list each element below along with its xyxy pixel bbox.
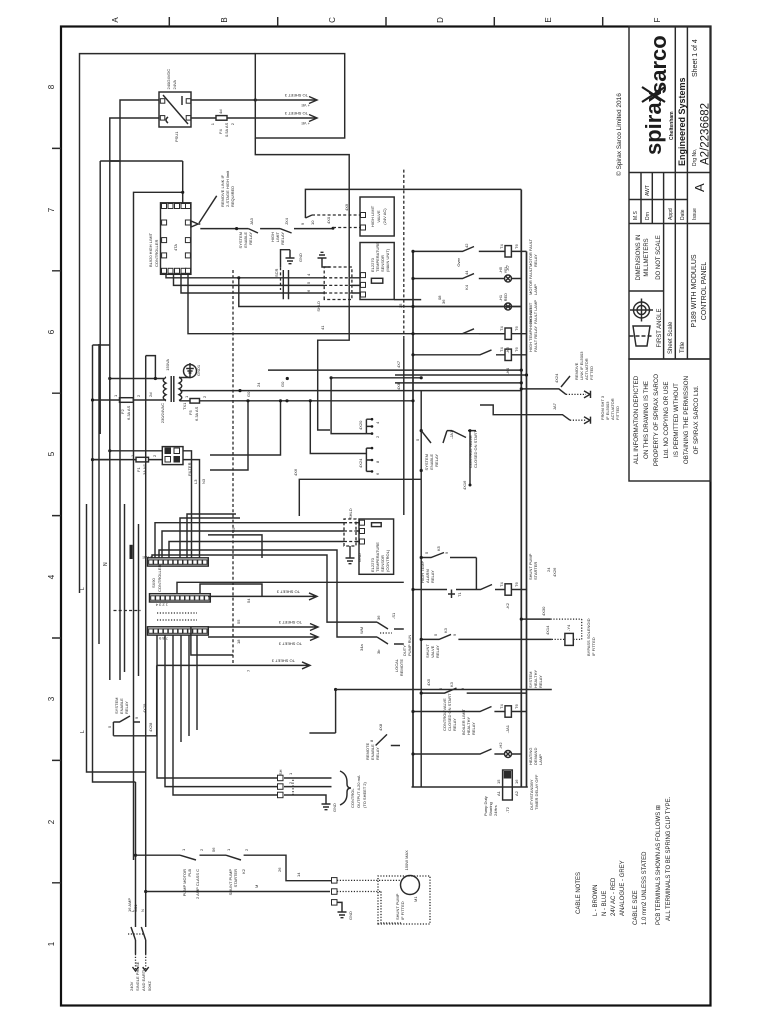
zone letters A-F right — [111, 17, 662, 23]
svg-text:4X28: 4X28 — [148, 722, 153, 732]
svg-text:4X9: 4X9 — [344, 203, 349, 211]
svg-text:36: 36 — [376, 615, 381, 620]
svg-text:HIGH LIMIT: HIGH LIMIT — [370, 205, 375, 227]
svg-text:STARTER: STARTER — [233, 869, 238, 887]
svg-text:OBTAINING THE PERMISSION: OBTAINING THE PERMISSION — [683, 376, 690, 464]
system enable relay contact (mid) — [415, 429, 557, 577]
sensor control wires — [215, 523, 360, 542]
svg-text:(CONTROL): (CONTROL) — [385, 549, 390, 572]
svg-text:IF FITTED: IF FITTED — [400, 901, 405, 920]
svg-text:56: 56 — [211, 847, 216, 852]
svg-text:-K2: -K2 — [505, 602, 510, 609]
svg-text:PUMP RUN: PUMP RUN — [407, 635, 412, 656]
svg-text:CONTROLLER: CONTROLLER — [157, 565, 162, 592]
svg-text:OUTPUT 4-20 mA: OUTPUT 4-20 mA — [356, 775, 361, 808]
svg-text:C: C — [328, 17, 337, 23]
svg-text:OF SPIRAX SARCO Ltd.: OF SPIRAX SARCO Ltd. — [693, 385, 700, 454]
svg-text:4X24: 4X24 — [358, 458, 363, 468]
svg-text:RELAY: RELAY — [124, 701, 129, 714]
svg-text:CABLE NOTES: CABLE NOTES — [576, 872, 582, 914]
remote enable relay — [309, 688, 400, 760]
rung high temp alarm — [420, 545, 477, 589]
svg-text:TO SHEET 3: TO SHEET 3 — [271, 658, 295, 663]
rung k6 coil — [411, 307, 538, 353]
svg-text:REQUIRED: REQUIRED — [230, 186, 235, 207]
wire bus y99 — [98, 344, 100, 644]
TX primary feed elbow — [146, 356, 156, 379]
svg-text:35: 35 — [398, 303, 403, 308]
svg-text:L3: L3 — [193, 479, 198, 484]
earth GND1 — [180, 363, 197, 378]
projection symbol circle — [630, 299, 653, 322]
svg-text:2: 2 — [47, 819, 56, 824]
svg-text:TO SHEET 3: TO SHEET 3 — [284, 93, 308, 98]
svg-text:CONTROLLER: CONTROLLER — [154, 240, 159, 267]
projection symbol cone — [630, 326, 654, 346]
svg-text:ANALOGUE - GREY: ANALOGUE - GREY — [620, 860, 626, 916]
svg-text:T6: T6 — [514, 244, 519, 249]
svg-text:GND: GND — [357, 553, 362, 562]
svg-text:1.0 mm2 UNLESS STATED: 1.0 mm2 UNLESS STATED — [642, 851, 648, 925]
title block outer box — [629, 27, 711, 360]
svg-text:18: 18 — [236, 639, 241, 644]
rung k4 coil — [411, 347, 526, 375]
svg-text:B: B — [220, 17, 229, 22]
dashed wires to valve — [312, 215, 360, 228]
rail aux 2 (B2 edge) — [420, 391, 422, 787]
svg-text:Cheltenham: Cheltenham — [669, 111, 675, 140]
zone numbers 1-8 top — [47, 84, 56, 946]
wire pump N — [146, 891, 330, 893]
svg-text:IS PERMITTED WITHOUT: IS PERMITTED WITHOUT — [673, 383, 680, 457]
terminal squares pump — [332, 878, 338, 884]
svg-text:-T2: -T2 — [505, 806, 510, 813]
svg-text:L N E: L N E — [142, 555, 152, 560]
svg-text:(TO SHEET 2): (TO SHEET 2) — [362, 781, 367, 808]
system enable relay (bottom left of controller) — [107, 611, 157, 736]
wire N jog — [93, 344, 110, 346]
svg-text:CONTROL: CONTROL — [350, 788, 355, 808]
strip C outputs — [157, 635, 278, 795]
earth hl shield — [286, 250, 295, 264]
svg-text:SINGLE PHASE: SINGLE PHASE — [135, 961, 140, 991]
svg-text:T4: T4 — [499, 347, 504, 352]
spirax sarco logo — [641, 35, 687, 166]
svg-text:2d: 2d — [148, 393, 153, 397]
wire bus y110 extend — [109, 161, 111, 680]
svg-text:150VA: 150VA — [165, 359, 170, 371]
dashed boundary upper — [403, 168, 405, 339]
svg-text:4X14: 4X14 — [545, 625, 550, 635]
fuse F2 — [93, 399, 167, 401]
wire BL920 feed — [182, 161, 184, 203]
wire TX primary drop — [110, 378, 165, 380]
earth control output — [320, 795, 331, 810]
svg-text:FAULT RELAY: FAULT RELAY — [533, 326, 538, 352]
wire pump L rung — [136, 854, 181, 856]
svg-text:T4: T4 — [499, 582, 504, 587]
svg-text:7 8 9: 7 8 9 — [158, 636, 168, 641]
svg-text:FIRST ANGLE: FIRST ANGLE — [657, 309, 663, 348]
transformer TX1 windings — [163, 376, 182, 402]
wire 4X5 long — [336, 689, 552, 691]
svg-text:Issue: Issue — [692, 208, 698, 220]
duty pump run text — [402, 635, 412, 656]
svg-text:08: 08 — [437, 295, 442, 300]
svg-text:4X6: 4X6 — [293, 468, 298, 476]
local/remote selector — [359, 612, 404, 676]
elbows strip A to sensor control — [155, 523, 215, 558]
wire rail mid — [134, 192, 183, 860]
svg-text:6.3A AS: 6.3A AS — [126, 405, 131, 420]
svg-text:4X16: 4X16 — [462, 480, 467, 490]
svg-text:K3: K3 — [449, 681, 454, 687]
svg-text:CABLE SIZE: CABLE SIZE — [633, 890, 639, 925]
svg-text:PROPERTY OF SPIRAX SARCO: PROPERTY OF SPIRAX SARCO — [653, 374, 660, 466]
svg-text:TO SHEET 3: TO SHEET 3 — [276, 589, 300, 594]
svg-text:A: A — [692, 183, 707, 192]
rung red lamp H1 — [411, 293, 538, 324]
arrow to sheet 3 (wire B) — [255, 115, 317, 122]
svg-text:CLOSED ON START: CLOSED ON START — [473, 430, 478, 468]
svg-text:10: 10 — [310, 220, 315, 225]
svg-text:RELAY: RELAY — [248, 232, 253, 245]
svg-text:240/24VDC: 240/24VDC — [166, 69, 171, 90]
svg-text:MILLMETERS: MILLMETERS — [644, 238, 650, 276]
rung motor fault relay — [411, 238, 538, 271]
svg-text:Over: Over — [456, 257, 461, 266]
svg-text:7: 7 — [47, 207, 56, 212]
svg-text:STARTER: STARTER — [533, 562, 538, 580]
shield dashed box main — [324, 267, 352, 300]
svg-text:Drn: Drn — [645, 212, 651, 220]
svg-text:GND: GND — [298, 253, 303, 262]
svg-text:4X5: 4X5 — [426, 678, 431, 686]
wire N bus — [93, 345, 136, 782]
wire to B2 rail — [331, 377, 421, 379]
svg-text:REMOTE: REMOTE — [399, 659, 404, 676]
zone ticks right edge — [169, 17, 602, 27]
dashed panel boundary — [232, 270, 234, 666]
svg-text:50HZ: 50HZ — [147, 981, 152, 991]
wire filter L — [110, 450, 163, 452]
brace control output — [340, 771, 351, 805]
svg-text:Sheet Scale: Sheet Scale — [668, 321, 674, 354]
svg-text:YEL: YEL — [503, 265, 508, 273]
svg-text:24: 24 — [256, 382, 261, 387]
svg-text:RELAY: RELAY — [430, 570, 435, 583]
svg-text:M: M — [254, 885, 259, 888]
wire supply N — [145, 772, 147, 927]
svg-text:PSU1: PSU1 — [174, 131, 179, 142]
wire 24V S2 — [268, 400, 413, 402]
svg-text:RELAY: RELAY — [452, 718, 457, 731]
svg-text:(24V AC): (24V AC) — [382, 208, 387, 225]
svg-text:Title: Title — [680, 341, 686, 353]
wire PSU +VE to sheet3 — [191, 99, 255, 101]
svg-text:0.5A AS: 0.5A AS — [224, 122, 229, 137]
strip B drop to ladder — [177, 582, 404, 593]
svg-text:4d: 4d — [218, 110, 223, 114]
contact high limit relay — [280, 228, 333, 234]
svg-text:6: 6 — [47, 329, 56, 334]
terminal strip C — [148, 627, 209, 635]
svg-text:L: L — [80, 587, 86, 590]
svg-text:F5: F5 — [188, 410, 193, 415]
svg-text:FITTED: FITTED — [615, 406, 620, 420]
svg-text:4X8: 4X8 — [378, 723, 383, 731]
svg-text:+ VE: + VE — [301, 121, 310, 126]
svg-text:E: E — [544, 17, 553, 22]
svg-text:2 AMP CLASS C: 2 AMP CLASS C — [195, 869, 200, 899]
svg-text:SHLD: SHLD — [348, 508, 353, 519]
wire trunk red lamp — [239, 278, 522, 307]
earth sensor control — [346, 546, 355, 564]
fuse F5 on 24V secondary — [180, 400, 268, 402]
svg-text:16: 16 — [514, 779, 519, 784]
fuse F1 — [93, 459, 163, 461]
from sheet 3 link — [480, 395, 620, 424]
svg-text:T6: T6 — [514, 704, 519, 709]
svg-text:N: N — [103, 562, 109, 566]
title block section dividers — [629, 173, 711, 292]
wire S2 branch B — [210, 401, 281, 455]
svg-text:A2: A2 — [514, 790, 519, 796]
wire bus y120 extend — [119, 161, 121, 680]
cable clamp — [283, 270, 288, 299]
svg-text:26: 26 — [277, 867, 282, 872]
svg-text:Drg No,: Drg No, — [692, 149, 698, 166]
svg-text:FITTED: FITTED — [589, 366, 594, 380]
svg-text:4X26: 4X26 — [552, 567, 557, 577]
rung heating demand lamp — [411, 742, 543, 765]
svg-text:T6: T6 — [514, 347, 519, 352]
wire 4X6 — [299, 479, 421, 516]
rail bottom 1 — [520, 190, 522, 788]
wire L long bus — [87, 504, 146, 772]
spare elbows strip A — [180, 514, 240, 558]
wire bus y124.5 — [124, 504, 126, 672]
svg-text:SCR: SCR — [274, 268, 279, 277]
timer duty/standby — [483, 770, 539, 816]
rung boiler limit healthy — [411, 670, 543, 735]
panel top wire — [80, 54, 256, 593]
svg-text:-S1: -S1 — [391, 612, 396, 619]
svg-text:T1: T1 — [457, 592, 462, 597]
link remove EL5003 — [520, 351, 594, 398]
svg-text:BL920 HIGH LIMIT: BL920 HIGH LIMIT — [148, 232, 153, 267]
strip C elbow down — [191, 627, 233, 655]
svg-text:24: 24 — [546, 567, 551, 572]
svg-text:Sheet 1 of 4: Sheet 1 of 4 — [692, 39, 699, 77]
svg-text:CONTROL PANEL: CONTROL PANEL — [701, 262, 708, 320]
wire rail y145.7 extend — [145, 356, 147, 772]
svg-text:PLB: PLB — [187, 869, 192, 877]
svg-text:A2/2236682: A2/2236682 — [700, 103, 712, 165]
svg-text:M.S: M.S — [633, 210, 639, 220]
zone ticks top edge — [52, 148, 61, 882]
svg-text:L: L — [80, 730, 86, 733]
svg-text:PCB TERMINALS SHOWN AS FOLLOWS: PCB TERMINALS SHOWN AS FOLLOWS ⊞ — [656, 805, 662, 925]
earth sensor main — [318, 252, 331, 267]
svg-text:4X8: 4X8 — [396, 382, 401, 390]
arrow to sheet 3 (wire A) — [255, 97, 317, 104]
svg-text:G0: G0 — [246, 391, 251, 397]
svg-text:K2: K2 — [241, 868, 246, 874]
legal text box — [629, 359, 711, 481]
wire trunk k6 — [188, 274, 505, 333]
svg-text:1: 1 — [47, 941, 56, 946]
wire bus y138.5 — [138, 524, 140, 676]
svg-text:-JA1: -JA1 — [449, 430, 454, 439]
svg-text:GND: GND — [332, 803, 337, 812]
svg-text:DO NOT SCALE: DO NOT SCALE — [656, 235, 662, 280]
svg-text:+ VE: + VE — [301, 103, 310, 108]
sensor ctrl drop — [394, 299, 421, 301]
sensor main wires — [166, 273, 360, 293]
svg-text:TO SHEET 3: TO SHEET 3 — [278, 642, 302, 647]
svg-text:4X20: 4X20 — [358, 420, 363, 430]
shunt pump dashed enclosure — [378, 876, 430, 924]
svg-text:GND1: GND1 — [196, 364, 201, 376]
rung yellow lamp H5 — [411, 265, 538, 295]
svg-text:RELAY: RELAY — [538, 675, 543, 688]
svg-text:(MAIN UNIT): (MAIN UNIT) — [385, 248, 390, 272]
svg-text:54: 54 — [246, 598, 251, 603]
wire pair 4X7 — [268, 370, 527, 383]
svg-text:VALVE: VALVE — [376, 210, 381, 223]
svg-text:T4: T4 — [499, 326, 504, 331]
wire 24V S1 — [180, 390, 521, 392]
svg-text:GND: GND — [348, 911, 353, 920]
svg-text:G0: G0 — [280, 381, 285, 387]
svg-text:RELAY: RELAY — [434, 454, 439, 467]
supply entry dashed — [136, 954, 146, 970]
bypass solenoid branch — [480, 606, 596, 656]
svg-text:K5: K5 — [436, 545, 441, 551]
svg-text:N - BLUE: N - BLUE — [602, 891, 608, 916]
svg-text:3b: 3b — [376, 649, 381, 654]
earth pump — [337, 902, 347, 917]
svg-text:-Y4: -Y4 — [566, 624, 571, 631]
wire L rail — [110, 160, 120, 162]
svg-text:150W MAX: 150W MAX — [404, 850, 409, 871]
wire motor dotted — [337, 879, 401, 881]
fuse F4 — [191, 110, 255, 137]
svg-text:N: N — [140, 909, 145, 912]
svg-text:sarco: sarco — [646, 35, 671, 94]
leader remove link — [199, 196, 217, 223]
svg-text:A1: A1 — [496, 790, 501, 796]
wire filter out — [183, 460, 200, 558]
svg-text:F: F — [653, 17, 662, 22]
svg-text:41: 41 — [320, 325, 325, 330]
svg-text:TX1: TX1 — [182, 402, 187, 410]
svg-text:230/24VAC: 230/24VAC — [160, 403, 165, 423]
svg-text:4X0: 4X0 — [326, 216, 331, 224]
dashed link control output — [292, 778, 294, 795]
svg-text:JX4: JX4 — [284, 217, 289, 225]
dotted x segments — [157, 613, 197, 620]
svg-text:M1: M1 — [413, 896, 418, 902]
svg-text:P189 WITH MODULUS: P189 WITH MODULUS — [691, 254, 698, 327]
svg-text:Ltd. NO COPYING OR USE: Ltd. NO COPYING OR USE — [663, 381, 670, 458]
BL920 right terminal strip — [162, 204, 191, 209]
contact shunt pump starter K2 — [226, 855, 332, 881]
wire ladder top feed — [305, 189, 521, 218]
pcb comb 1 — [366, 419, 372, 433]
comb feed 1 — [331, 378, 366, 434]
svg-text:RELAY: RELAY — [533, 254, 538, 267]
rung shunt valve relay — [420, 627, 480, 658]
contact system enable (hl chain) — [248, 229, 280, 233]
svg-text:© Spirax Sarco Limited 2016: © Spirax Sarco Limited 2016 — [615, 93, 623, 176]
svg-text:Appd: Appd — [668, 208, 674, 220]
svg-text:8: 8 — [47, 84, 56, 89]
rail mid aux — [403, 339, 405, 515]
svg-text:42: 42 — [464, 243, 469, 248]
svg-text:4X29: 4X29 — [142, 703, 147, 713]
svg-text:RELAY: RELAY — [375, 747, 380, 760]
svg-text:34a: 34a — [359, 644, 364, 651]
svg-text:AND EARTH: AND EARTH — [141, 968, 146, 991]
svg-text:D: D — [436, 17, 445, 23]
comb feed 2 — [310, 401, 366, 454]
svg-text:4: 4 — [47, 574, 56, 579]
isolator SS1 — [128, 927, 146, 954]
svg-text:F2: F2 — [120, 409, 125, 414]
svg-text:5: 5 — [47, 451, 56, 456]
svg-text:K4: K4 — [464, 284, 469, 290]
contact pump motor plb — [180, 855, 226, 860]
wire 25 — [208, 535, 262, 558]
svg-text:T6: T6 — [514, 582, 519, 587]
terminal strip A — [148, 558, 209, 566]
svg-text:3: 3 — [47, 696, 56, 701]
svg-text:N3: N3 — [201, 478, 206, 484]
shield dashed box control — [344, 519, 356, 546]
svg-text:L - BROWN: L - BROWN — [593, 885, 599, 916]
wire PSU L feed — [110, 100, 159, 161]
wire high limit chain — [200, 228, 248, 230]
to-sheet-3 box — [255, 54, 344, 138]
svg-text:36: 36 — [441, 299, 446, 304]
svg-text:TO SHEET 3: TO SHEET 3 — [284, 111, 308, 116]
svg-text:SH: SH — [278, 769, 283, 775]
wire PSU N feed — [110, 118, 159, 161]
filter box — [162, 447, 183, 465]
svg-text:RED: RED — [503, 293, 508, 302]
svg-text:Engineered Systems: Engineered Systems — [677, 77, 687, 166]
svg-text:ALL TERMINALS TO BE SPRING CLI: ALL TERMINALS TO BE SPRING CLIP TYPE. — [666, 796, 672, 921]
BL920 left terminal strip — [162, 268, 191, 273]
svg-text:24Hrs: 24Hrs — [493, 805, 498, 816]
ferrite bar — [130, 545, 133, 559]
svg-text:24V AC - RED: 24V AC - RED — [611, 877, 617, 916]
pcb comb 2 — [366, 448, 372, 471]
svg-text:24VA: 24VA — [172, 80, 177, 90]
svg-text:JA7: JA7 — [552, 402, 557, 410]
svg-text:WM: WM — [359, 627, 364, 634]
svg-text:RELAY: RELAY — [280, 232, 285, 245]
svg-text:ON THIS DRAWING IS THE: ON THIS DRAWING IS THE — [643, 381, 650, 459]
dimensions cell text — [636, 235, 662, 281]
BL920 top/bottom squares — [162, 220, 191, 258]
svg-text:4X24: 4X24 — [554, 373, 559, 383]
svg-text:T6: T6 — [514, 326, 519, 331]
rung control valve closed relay — [420, 681, 527, 731]
svg-text:-JA1: -JA1 — [505, 724, 510, 733]
